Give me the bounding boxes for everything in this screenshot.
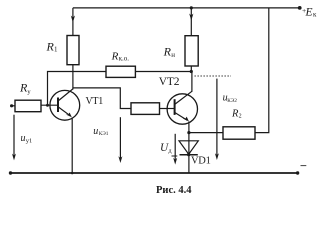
svg-text:Рис. 4.4: Рис. 4.4	[156, 185, 192, 196]
svg-text:R: R	[111, 50, 119, 62]
svg-text:u: u	[21, 133, 26, 144]
transistor VT1 emitter diagonal	[59, 107, 71, 116]
svg-text:к.о.: к.о.	[119, 54, 130, 62]
arrowhead uKE2	[215, 153, 219, 160]
svg-text:д: д	[169, 148, 172, 154]
wire VT2 collector	[191, 72, 193, 92]
node VT2 emitter / R2 junction	[187, 131, 190, 134]
arrowhead on R1 branch	[71, 16, 75, 23]
svg-text:1: 1	[54, 46, 58, 54]
wire R1 bottom to VT1 collector	[72, 65, 74, 90]
resistor R1 body	[67, 36, 79, 65]
wire R2 left lead to emitter node	[189, 132, 223, 134]
wire Ry to VT1 base	[41, 104, 58, 106]
wire feedback Rko left: down to VT1 base	[48, 72, 107, 106]
transistor VT2 emitter diagonal	[175, 113, 187, 121]
node top rail / Rn junction	[190, 6, 193, 9]
svg-text:у: у	[27, 89, 31, 96]
wire ground rail	[11, 172, 298, 174]
wire Rko right to Rn bottom junction	[135, 71, 191, 73]
wire Rn top lead	[190, 8, 192, 36]
wire VT2 emitter down through diode to ground	[188, 122, 190, 174]
minus sign at ground right terminal	[301, 164, 307, 167]
arrowhead VT1 emitter	[66, 113, 72, 118]
arrowhead Ud	[173, 158, 177, 165]
voltage arrow uY1 line	[13, 115, 15, 156]
arrowhead on Rn branch	[189, 14, 193, 21]
Ud bottom reference dash	[172, 155, 178, 157]
wire VT1 collector to coupling resistor	[73, 88, 131, 109]
transistor VT2 circle	[167, 94, 197, 124]
node ground right terminal	[296, 171, 299, 174]
svg-text:R: R	[163, 44, 172, 58]
dotted line from VT2 collector node	[195, 75, 232, 77]
arrowhead uKE1	[118, 156, 122, 163]
transistor VT1 base bar	[57, 98, 59, 113]
resistor Ry body	[15, 100, 41, 112]
svg-text:у1: у1	[26, 138, 33, 145]
node VT1 emitter at ground	[71, 172, 74, 175]
transistor VT2 collector diagonal	[175, 91, 192, 104]
wire top rail	[73, 7, 300, 9]
arrowhead VT2 emitter	[183, 117, 189, 122]
voltage arrow uKE1 line	[119, 117, 121, 158]
wire VT1 emitter down to ground	[71, 118, 73, 174]
wire R1 top lead	[72, 8, 74, 36]
wire right branch from rail	[255, 8, 269, 133]
svg-text:к: к	[313, 11, 317, 19]
node ground left terminal	[9, 171, 12, 174]
resistor Rko body	[106, 66, 135, 77]
svg-text:VT2: VT2	[159, 76, 180, 88]
svg-text:u: u	[93, 126, 98, 137]
arrowhead uY1	[12, 154, 16, 161]
node Rn bottom / Rko / VT2 collector junction	[190, 70, 193, 73]
svg-text:КЭ1: КЭ1	[99, 131, 109, 137]
resistor coupling body (between VT1 and VT2)	[131, 103, 160, 115]
wire Rn bottom to junction	[190, 66, 192, 72]
transistor VT2 base bar	[174, 99, 176, 115]
wire coupling resistor to VT2 base	[160, 108, 175, 110]
node VT1 base / Rko junction	[46, 104, 49, 107]
svg-text:2: 2	[239, 114, 242, 120]
voltage arrow uKE2 line	[216, 79, 218, 155]
transistor VT1 circle	[50, 90, 80, 120]
resistor Rn body	[185, 36, 198, 66]
svg-text:н: н	[171, 51, 175, 59]
voltage arrow Ud line	[174, 134, 176, 160]
svg-text:E: E	[305, 6, 313, 18]
diode VD1 triangle	[179, 141, 198, 154]
wire input terminal to Ry	[12, 105, 15, 107]
svg-text:КЭ2: КЭ2	[227, 98, 237, 104]
svg-text:VT1: VT1	[86, 96, 104, 107]
node input terminal top	[10, 104, 13, 107]
node +Ek terminal	[298, 6, 302, 10]
transistor VT1 collector diagonal	[59, 89, 73, 101]
diode VD1 cathode bar	[180, 154, 198, 156]
resistor R2 body	[223, 127, 255, 139]
svg-text:VD1: VD1	[191, 156, 211, 167]
node diode apex / cathode	[187, 153, 190, 156]
